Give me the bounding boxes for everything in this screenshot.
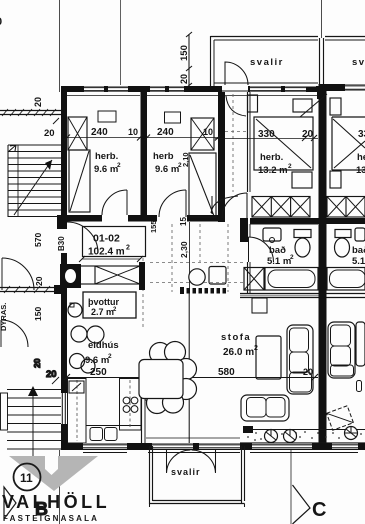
reference line top x120 xyxy=(120,0,122,85)
bedroom2 radiator xyxy=(165,112,181,123)
svg-text:150: 150 xyxy=(179,45,190,61)
left outside wall double line with hatch xyxy=(0,110,61,112)
svg-text:26.0 m: 26.0 m xyxy=(223,347,254,358)
right unit wall rect upper xyxy=(330,98,341,115)
right unit closet band bottom wall xyxy=(327,218,365,224)
top exterior wall xyxy=(61,86,326,92)
bedroom3 wall rect upper xyxy=(293,99,312,112)
hall dashed lines xyxy=(150,262,246,264)
laundry washer circle xyxy=(68,303,82,317)
window bedroom2 top xyxy=(150,87,184,92)
corridor balcony door arc xyxy=(226,96,246,116)
section marker C chevron xyxy=(293,485,311,524)
balcony door opening top wall xyxy=(222,86,248,92)
kitchen door arc xyxy=(145,400,158,413)
kitchen bottom counter with sink xyxy=(86,425,141,427)
dining table xyxy=(139,360,183,399)
bedroom3 rectangle xyxy=(254,117,313,170)
right unit mirrored room lines xyxy=(332,116,365,118)
svalir bottom balcony right edge xyxy=(241,446,243,504)
stipple band corner black xyxy=(243,426,253,433)
kitchen two appliance circles xyxy=(71,326,87,342)
bedroom1 tall closet with diagonal xyxy=(69,150,90,212)
svg-text:570: 570 xyxy=(33,233,43,247)
bedroom3 dim line xyxy=(215,138,318,140)
svalir balcony corner stubs xyxy=(149,504,151,508)
svg-text:VALHÖLL: VALHÖLL xyxy=(2,492,110,512)
stipple circle pot 1 xyxy=(265,430,278,443)
svg-text:150: 150 xyxy=(33,307,43,321)
svg-text:eldhús: eldhús xyxy=(88,340,119,351)
right unit tilted table dashed xyxy=(327,406,354,430)
exterior stairs arrow xyxy=(32,392,34,458)
bedroom2 X closet xyxy=(191,118,214,150)
window bedroom3 top xyxy=(250,87,316,92)
glass door band stofa bottom xyxy=(152,444,240,450)
svg-text:240: 240 xyxy=(91,127,108,138)
kitchen divider wall xyxy=(141,378,143,443)
dining chairs xyxy=(150,343,171,364)
svg-text:20: 20 xyxy=(32,358,42,368)
bedroom1 X closet xyxy=(68,117,87,150)
closet X band bedroom3 xyxy=(252,197,310,218)
svg-text:C: C xyxy=(312,499,326,521)
svg-text:10: 10 xyxy=(128,127,138,137)
bathtub xyxy=(265,268,318,291)
svg-text:11: 11 xyxy=(20,471,33,485)
bedroom3 wall rect lower xyxy=(292,172,312,188)
svg-text:he: he xyxy=(357,152,365,163)
dimension line 150/20 vertical xyxy=(188,34,190,86)
svalir door arc top xyxy=(225,62,248,85)
stofa sofa bottom xyxy=(241,395,289,421)
svalir bottom balcony bottom edge xyxy=(150,503,245,505)
svalir balcony top: top edge double line xyxy=(211,36,319,38)
right unit window top xyxy=(345,85,365,91)
logo outlined arrow left xyxy=(4,487,16,519)
left exterior wall xyxy=(61,86,67,450)
bedroom3 diagonal to corner xyxy=(300,94,327,117)
exterior stairs left frame xyxy=(1,393,8,430)
right unit mirrored diagonal xyxy=(334,141,365,168)
logo white house notch xyxy=(45,456,58,475)
stairwell lower wall double line with hatch xyxy=(0,287,61,289)
balcony divider double line xyxy=(319,38,321,84)
svg-text:B30: B30 xyxy=(57,236,66,251)
svg-text:0: 0 xyxy=(0,16,2,28)
stipple band borders xyxy=(243,429,365,431)
apartment number box 01-02 xyxy=(83,227,146,257)
right unit basin fragment xyxy=(355,228,365,241)
stairs small arrow top xyxy=(8,145,16,152)
svg-text:bað: bað xyxy=(352,245,365,256)
svg-text:5.1: 5.1 xyxy=(352,256,365,267)
right unit sofa xyxy=(328,322,355,378)
logo circle with 11 xyxy=(14,464,41,491)
svg-text:102.4 m: 102.4 m xyxy=(88,247,125,258)
right unit small pill xyxy=(357,381,362,392)
laundry room box xyxy=(83,292,136,318)
svg-text:9.6 m: 9.6 m xyxy=(94,164,118,175)
svg-text:2.7 m: 2.7 m xyxy=(91,307,114,317)
entrance door opening left wall xyxy=(61,222,67,253)
bedroom1 dim line xyxy=(67,137,140,139)
bathroom corner piece xyxy=(240,218,248,242)
svg-text:þvottur: þvottur xyxy=(88,297,119,307)
bathroom bottom wall xyxy=(240,293,319,295)
hall washbasin circle xyxy=(189,269,205,285)
stairs left stringer xyxy=(7,145,9,217)
bedroom2 dim line xyxy=(147,137,218,139)
stool below bathroom xyxy=(252,298,267,313)
dark WC niche xyxy=(60,264,81,288)
right unit toilet xyxy=(335,230,351,238)
stipple circle pot 3 xyxy=(345,427,358,440)
svg-text:20: 20 xyxy=(46,369,57,380)
stairs direction arrow xyxy=(14,160,52,215)
svg-text:svalir: svalir xyxy=(250,57,284,68)
bathroom toilet xyxy=(294,230,311,238)
bedroom1 radiator xyxy=(98,111,116,122)
closet dim line xyxy=(82,258,140,260)
svg-text:20: 20 xyxy=(33,97,43,107)
corridor door arc xyxy=(211,196,238,213)
svg-text:2: 2 xyxy=(290,254,294,261)
vertical partition line hall/stofa front xyxy=(188,292,190,443)
stairs treads xyxy=(8,144,61,146)
svg-text:33: 33 xyxy=(358,129,365,140)
svg-text:9.6 m: 9.6 m xyxy=(85,355,109,366)
bathroom door xyxy=(248,237,250,262)
bedroom1 door xyxy=(102,190,127,215)
hall front line vertical xyxy=(189,222,191,292)
stipple circle pot 2 xyxy=(284,430,297,443)
svg-text:herb: herb xyxy=(153,151,174,162)
svg-text:330: 330 xyxy=(258,129,275,140)
svg-text:20: 20 xyxy=(44,128,55,139)
svg-text:5.1 m: 5.1 m xyxy=(267,256,291,267)
stipple dots xyxy=(247,431,362,441)
exterior sill lines below bottom wall xyxy=(83,452,127,454)
svg-text:bað: bað xyxy=(269,245,286,256)
bedroom3 diagonal xyxy=(256,119,311,168)
balcony floor sill lines xyxy=(214,82,318,84)
svg-text:herb.: herb. xyxy=(95,151,118,162)
svg-text:13.2 m: 13.2 m xyxy=(258,165,288,176)
svg-text:250: 250 xyxy=(90,367,107,378)
stofa sofa along party wall xyxy=(287,325,313,394)
bedroom2 door xyxy=(159,190,186,217)
corridor dashed line horizontal xyxy=(225,131,247,133)
entrance hall door arc from stairwell xyxy=(67,222,98,253)
bedroom3 door arc xyxy=(222,193,247,218)
wall bedroom2/corridor xyxy=(218,92,225,222)
window kitchen left wall xyxy=(61,393,67,424)
svg-text:2: 2 xyxy=(108,353,112,360)
svg-text:stofa: stofa xyxy=(221,332,251,343)
wall post right of closet xyxy=(139,262,145,290)
svg-text:9.6 m: 9.6 m xyxy=(155,164,179,175)
wall stub stairwell xyxy=(57,215,67,229)
exterior stairs treads xyxy=(7,397,61,399)
bedroom2 tall closet with diagonal xyxy=(189,153,216,217)
window right unit bottom xyxy=(332,444,358,450)
bathroom washbasin xyxy=(263,228,281,241)
svg-text:20: 20 xyxy=(34,276,44,286)
svg-text:13: 13 xyxy=(356,165,365,176)
right unit wall rect lower xyxy=(330,171,341,188)
bedroom3 bottom wall xyxy=(250,218,319,224)
svg-text:240: 240 xyxy=(157,127,174,138)
party wall xyxy=(319,84,327,450)
wall junction blob xyxy=(306,87,326,99)
closet X band right unit xyxy=(327,197,365,218)
svalir balcony top: left edge double line xyxy=(210,36,212,86)
svg-text:15: 15 xyxy=(179,217,188,226)
bedroom3 left wall double line xyxy=(247,92,249,192)
svg-text:2,30: 2,30 xyxy=(179,241,189,258)
svg-text:2: 2 xyxy=(117,162,121,169)
svg-text:580: 580 xyxy=(218,367,235,378)
section line B vertical top xyxy=(59,0,61,92)
svalir bottom balcony left edge xyxy=(149,446,151,504)
svg-text:2,10: 2,10 xyxy=(181,152,190,167)
right unit top wall xyxy=(326,84,365,91)
bedrooms bottom wall segments xyxy=(67,215,102,222)
logo grey triangle xyxy=(9,456,98,491)
right unit bathroom bottom wall xyxy=(327,293,365,295)
wall bedroom1/bedroom2 xyxy=(141,92,148,215)
kitchen right counter with stove xyxy=(120,379,142,431)
dimension line 250/580 xyxy=(67,377,318,379)
hall square fixture xyxy=(209,267,226,285)
window kitchen bottom xyxy=(83,444,127,450)
svg-text:20: 20 xyxy=(302,129,314,140)
exterior stairs top line xyxy=(7,389,61,391)
svg-text:01-02: 01-02 xyxy=(93,233,120,245)
svg-text:20: 20 xyxy=(179,74,189,84)
svg-text:svalir: svalir xyxy=(171,467,201,477)
window bedroom1 top xyxy=(84,87,128,92)
inner face line top wall xyxy=(67,95,140,97)
bottom exterior wall xyxy=(61,443,365,450)
svalir bottom door arcs xyxy=(166,450,168,472)
bathtub X box xyxy=(244,268,264,291)
corridor balcony door leaf xyxy=(248,95,258,112)
svg-text:sval: sval xyxy=(352,57,365,68)
section line B vertical bottom xyxy=(59,450,61,524)
entrance door arc xyxy=(2,258,34,290)
svg-text:2: 2 xyxy=(288,163,292,170)
svg-text:2: 2 xyxy=(126,245,130,252)
bathroom top wall line xyxy=(250,223,318,225)
bathroom left wall double line xyxy=(247,224,249,237)
kitchen left counter xyxy=(68,379,87,444)
bottom wall inner face line stofa xyxy=(146,437,240,439)
radiator row hall xyxy=(180,287,184,294)
section line C vertical xyxy=(290,446,292,524)
corridor dashed line vertical xyxy=(232,94,234,192)
window stofa right bottom xyxy=(252,444,312,450)
svalir balcony right unit top edge xyxy=(325,36,365,38)
hall closet row xyxy=(78,266,140,284)
svg-text:herb.: herb. xyxy=(260,152,283,163)
stofa armchair xyxy=(256,336,281,379)
right unit bathtub xyxy=(327,268,365,291)
reference line top right xyxy=(321,0,323,38)
svg-text:155: 155 xyxy=(149,220,158,233)
svg-text:FASTEIGNASALA: FASTEIGNASALA xyxy=(3,514,99,523)
door arc lower left xyxy=(1,320,28,347)
